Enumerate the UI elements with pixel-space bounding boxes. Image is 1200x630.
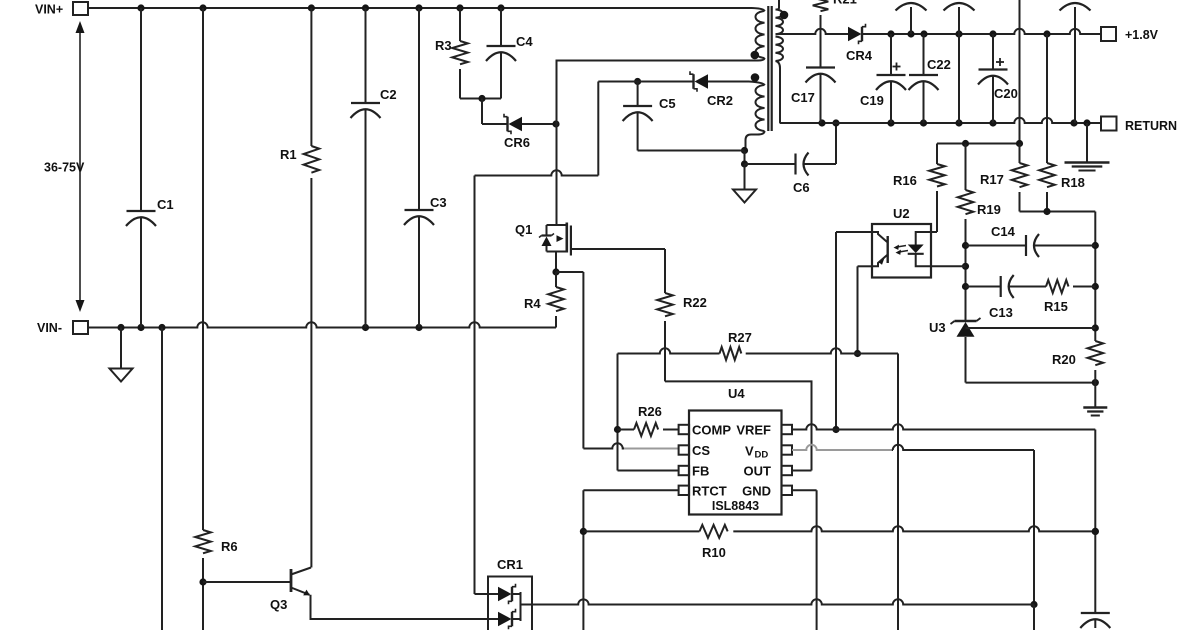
svg-text:CR1: CR1 — [497, 557, 523, 572]
resistor R27 — [720, 330, 752, 360]
svg-text:R10: R10 — [702, 545, 726, 560]
capacitor C1 — [126, 8, 174, 328]
wire Q1 gate line — [571, 248, 665, 250]
wire divider bottom — [1020, 208, 1099, 341]
wire Q3 emitter to CR1 — [311, 595, 499, 619]
resistor R4 — [524, 272, 564, 328]
wire stub down from VIN- rail — [161, 328, 163, 630]
svg-text:RETURN: RETURN — [1125, 119, 1177, 133]
capacitor C17 — [791, 68, 836, 124]
svg-text:FB: FB — [692, 464, 709, 479]
resistor R6 — [195, 8, 237, 630]
resistor R19 — [958, 144, 1001, 322]
diode CR4 — [846, 24, 873, 63]
wire FB node vertical — [614, 354, 679, 471]
svg-text:R6: R6 — [221, 539, 238, 554]
resistor R16 — [893, 144, 945, 233]
svg-text:36-75V: 36-75V — [44, 161, 85, 175]
pin RTCT — [679, 484, 727, 499]
ground at RETURN — [1065, 123, 1110, 171]
svg-text:C14: C14 — [991, 224, 1016, 239]
wire VREF line — [792, 424, 1099, 613]
svg-text:R21: R21 — [833, 0, 857, 7]
wire VDD gray segment — [792, 445, 893, 450]
svg-text:R20: R20 — [1052, 352, 1076, 367]
wire feedback tap from top — [1019, 0, 1021, 144]
pin VREF — [736, 423, 792, 438]
svg-text:COMP: COMP — [692, 423, 731, 438]
svg-text:C19: C19 — [860, 93, 884, 108]
transformer primary winding — [752, 8, 765, 61]
wire R3/C4 junction — [460, 95, 501, 124]
svg-text:C2: C2 — [380, 87, 397, 102]
wire C5 return — [638, 150, 745, 152]
capacitor C6 — [745, 119, 840, 195]
svg-text:C4: C4 — [516, 34, 533, 49]
node 36-75V input annotation arrow — [44, 21, 85, 312]
pin CS — [679, 443, 711, 458]
svg-text:GND: GND — [742, 484, 771, 499]
pin FB — [679, 464, 710, 479]
terminal RETURN — [1101, 117, 1177, 134]
wire RETURN rail — [780, 118, 1101, 127]
ground at VIN- — [110, 328, 133, 382]
wire VDD line — [893, 445, 1038, 630]
resistor R21 partial — [813, 0, 857, 68]
wire bias bottom node — [741, 147, 748, 168]
svg-text:DD: DD — [755, 450, 769, 461]
pin GND — [742, 484, 792, 499]
ground under transformer — [733, 164, 756, 203]
terminal VIN- — [37, 321, 88, 335]
capacitor C3 — [404, 8, 447, 328]
resistor R3 — [435, 8, 468, 99]
wire VIN+ top rail — [88, 4, 752, 11]
svg-text:C3: C3 — [430, 195, 447, 210]
svg-text:C17: C17 — [791, 90, 815, 105]
svg-text:Q1: Q1 — [515, 222, 532, 237]
svg-text:VIN+: VIN+ — [35, 3, 63, 17]
svg-text:VIN-: VIN- — [37, 321, 62, 335]
svg-text:R16: R16 — [893, 173, 917, 188]
zener U3 — [929, 318, 981, 383]
resistor R17 — [980, 144, 1027, 212]
svg-text:C20: C20 — [994, 86, 1018, 101]
secondary phase dot — [780, 11, 789, 20]
wire U2 emitter to COMP net — [854, 266, 872, 357]
svg-text:C1: C1 — [157, 197, 174, 212]
wire RTCT node — [580, 490, 679, 630]
svg-text:Q3: Q3 — [270, 597, 287, 612]
pin COMP — [679, 423, 732, 438]
svg-text:R18: R18 — [1061, 175, 1085, 190]
wire +1.8V rail right — [862, 29, 1101, 38]
capacitor C4 — [486, 8, 533, 99]
ground at R20 — [1083, 383, 1107, 416]
capacitor C19 — [860, 34, 906, 123]
wire clamp node — [475, 82, 599, 595]
bias phase dot — [751, 73, 760, 82]
resistor R1 — [280, 8, 319, 568]
transformer secondary winding — [776, 0, 784, 123]
svg-text:U4: U4 — [728, 386, 745, 401]
svg-text:C13: C13 — [989, 305, 1013, 320]
transformer bias winding — [746, 82, 765, 151]
wire CS gray segment — [624, 448, 679, 450]
svg-text:R26: R26 — [638, 404, 662, 419]
svg-text:U3: U3 — [929, 320, 946, 335]
capacitor C14 — [966, 224, 1096, 257]
svg-text:CR6: CR6 — [504, 135, 530, 150]
wire OUT drive loop — [665, 381, 812, 470]
pin OUT — [744, 464, 792, 479]
svg-text:R15: R15 — [1044, 299, 1068, 314]
svg-text:ISL8843: ISL8843 — [712, 499, 759, 513]
svg-text:R22: R22 — [683, 295, 707, 310]
svg-text:R1: R1 — [280, 147, 297, 162]
diode CR2 — [598, 71, 749, 108]
capacitor C2 — [351, 8, 397, 328]
svg-text:CR4: CR4 — [846, 48, 873, 63]
wire GND pin down — [792, 490, 817, 630]
wire COMP comp line — [618, 348, 899, 630]
svg-text:C6: C6 — [793, 180, 810, 195]
resistor R10 — [583, 525, 1099, 560]
terminal VIN+ — [35, 2, 88, 17]
svg-text:OUT: OUT — [744, 464, 772, 479]
capacitor partial bottom right — [1080, 613, 1110, 628]
transistor Q3 — [203, 568, 311, 613]
svg-text:R17: R17 — [980, 172, 1004, 187]
primary phase dot — [751, 51, 760, 60]
capacitor partial top 3 — [1060, 3, 1091, 123]
wire U2 LED cathode — [931, 265, 966, 267]
wire divider top line — [937, 140, 1023, 147]
wire CS sense — [556, 272, 624, 449]
diode CR6 — [482, 114, 560, 150]
resistor R22 — [657, 249, 707, 381]
svg-text:R4: R4 — [524, 296, 541, 311]
optocoupler U2 — [872, 206, 931, 278]
wire U3 cathode line — [966, 327, 1096, 329]
svg-text:R3: R3 — [435, 38, 452, 53]
svg-text:R19: R19 — [977, 202, 1001, 217]
wire +1.8V rail left — [780, 29, 849, 34]
pin VDD — [745, 444, 792, 461]
capacitor partial top 1 — [896, 3, 927, 34]
wire U3 anode loop — [966, 379, 1099, 386]
resistor R18 — [1039, 34, 1085, 212]
capacitor C22 — [909, 34, 951, 123]
transformer core — [768, 6, 771, 131]
svg-text:RTCT: RTCT — [692, 484, 727, 499]
wire VIN- rail — [88, 322, 556, 331]
wire primary bottom to Q1 drain — [557, 61, 753, 226]
svg-text:U2: U2 — [893, 206, 910, 221]
wire U2 collector to VREF — [832, 232, 872, 433]
resistor R20 — [1052, 341, 1103, 383]
resistor R15 — [1009, 280, 1096, 314]
capacitor partial top 2 — [944, 3, 975, 123]
terminal +1.8V — [1101, 27, 1159, 42]
svg-text:+1.8V: +1.8V — [1125, 28, 1159, 42]
resistor R26 — [618, 404, 679, 436]
svg-text:VREF: VREF — [736, 423, 771, 438]
wire CR1 output to VDD — [521, 599, 1035, 604]
capacitor C5 — [623, 78, 676, 151]
op-amp U4 ISL8843 box — [689, 386, 782, 515]
svg-text:V: V — [745, 444, 754, 459]
svg-text:C22: C22 — [927, 57, 951, 72]
svg-text:R27: R27 — [728, 330, 752, 345]
diode CR1 dual package — [475, 557, 533, 630]
svg-text:C5: C5 — [659, 96, 676, 111]
transistor Q1 — [515, 222, 571, 256]
capacitor C20 — [978, 34, 1018, 123]
wire Q1 source node — [552, 252, 559, 276]
svg-text:CS: CS — [692, 443, 710, 458]
svg-text:CR2: CR2 — [707, 93, 733, 108]
capacitor C13 — [966, 275, 1014, 320]
